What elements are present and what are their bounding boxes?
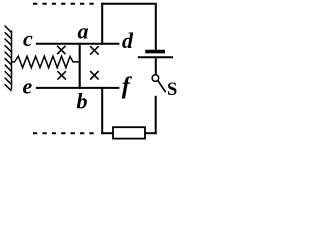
- wire: right vertical down to battery: [155, 4, 157, 50]
- svg-text:c: c: [23, 26, 33, 51]
- field symbol x top-right: [90, 46, 98, 54]
- field symbol x bottom-right: [90, 71, 98, 79]
- wire: switch to bottom wire: [155, 96, 157, 134]
- resistor R: [113, 127, 145, 138]
- battery: long thin plate: [138, 56, 173, 58]
- switch S pivot circle: [152, 75, 159, 82]
- wire: top horizontal: [101, 3, 157, 5]
- svg-text:f: f: [122, 73, 133, 100]
- wall (hatched support): [5, 26, 12, 91]
- wire: bottom left horizontal: [101, 132, 113, 134]
- spring between wall and rod ab: [12, 56, 80, 67]
- svg-text:S: S: [167, 80, 177, 100]
- svg-text:d: d: [122, 28, 134, 53]
- bottom dashed rail continuation: [33, 132, 97, 134]
- conducting rod ab: [79, 43, 81, 89]
- wire: bottom right horizontal: [145, 132, 157, 134]
- field symbol x bottom-left: [58, 71, 66, 79]
- field symbol x top-left: [57, 46, 65, 54]
- svg-text:a: a: [78, 18, 89, 43]
- svg-text:e: e: [23, 73, 33, 98]
- svg-text:b: b: [77, 88, 88, 113]
- wire: bottom rail junction down: [101, 87, 103, 134]
- wire: battery to switch: [155, 58, 157, 74]
- battery: short thick plate: [145, 50, 165, 54]
- top dashed rail continuation: [33, 3, 97, 5]
- switch S lever (open): [158, 80, 166, 92]
- wire: top rail junction up: [101, 3, 103, 45]
- top rail c-a-d: [36, 43, 120, 45]
- bottom rail e-b-f: [36, 87, 120, 89]
